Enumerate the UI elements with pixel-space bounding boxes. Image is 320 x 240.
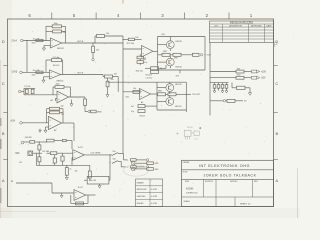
svg-text:FSCM NO: FSCM NO — [205, 181, 214, 183]
svg-text:10k: 10k — [135, 37, 138, 39]
svg-text:C: C — [275, 81, 278, 86]
svg-text:DATE: DATE — [266, 24, 272, 27]
svg-text:R44 1k: R44 1k — [140, 115, 146, 117]
svg-text:2k2 680: 2k2 680 — [42, 151, 49, 153]
svg-text:10k: 10k — [106, 33, 109, 35]
svg-text:TL071: TL071 — [78, 187, 83, 189]
svg-text:APPROVED: APPROVED — [251, 24, 262, 27]
svg-text:6k8 48V: 6k8 48V — [25, 137, 33, 139]
svg-text:R42: R42 — [126, 97, 129, 99]
svg-text:A4: A4 — [144, 58, 146, 61]
svg-text:+15V: +15V — [161, 34, 166, 36]
svg-text:1 2 3: 1 2 3 — [194, 139, 198, 141]
svg-text:OUT LEVEL: OUT LEVEL — [91, 153, 101, 155]
svg-text:ISSUED: ISSUED — [137, 203, 144, 205]
svg-text:C4 100p: C4 100p — [53, 57, 60, 59]
svg-text:MIC: MIC — [16, 153, 20, 155]
svg-text:TITLE: TITLE — [183, 171, 189, 173]
svg-text:S1a: S1a — [113, 151, 116, 153]
svg-text:CHECKED: CHECKED — [137, 196, 147, 198]
svg-text:R22 10k: R22 10k — [127, 43, 134, 45]
svg-text:10k: 10k — [133, 88, 136, 90]
svg-text:4-12-85: 4-12-85 — [151, 203, 157, 205]
svg-text:1k: 1k — [160, 68, 162, 70]
svg-text:BD139: BD139 — [176, 41, 183, 43]
svg-text:BD139: BD139 — [187, 127, 192, 129]
svg-text:22k: 22k — [61, 114, 64, 116]
svg-text:A: A — [275, 178, 278, 183]
svg-text:OUT B: OUT B — [77, 72, 84, 74]
svg-text:INT ELEKTRONIK OHG: INT ELEKTRONIK OHG — [199, 164, 250, 168]
svg-text:JOKER 19-D: JOKER 19-D — [186, 192, 198, 194]
svg-text:1k: 1k — [70, 168, 72, 170]
svg-text:47p: 47p — [131, 111, 134, 113]
svg-text:R52: R52 — [237, 75, 240, 77]
svg-text:P1 22k: P1 22k — [25, 86, 31, 88]
svg-text:C12 47p: C12 47p — [146, 78, 153, 80]
svg-text:2: 2 — [127, 167, 128, 169]
svg-text:100n: 100n — [32, 43, 36, 45]
svg-text:B: B — [275, 131, 278, 136]
svg-text:CH A: CH A — [12, 40, 18, 43]
svg-text:SCALE: SCALE — [184, 200, 191, 203]
svg-text:22u: 22u — [111, 79, 114, 81]
svg-text:OUT A: OUT A — [77, 40, 84, 43]
svg-text:A5: A5 — [141, 101, 143, 104]
svg-text:47k: 47k — [63, 32, 66, 34]
svg-text:REM: REM — [97, 111, 102, 113]
svg-text:R31 4k7: R31 4k7 — [146, 74, 153, 76]
svg-text:10k: 10k — [96, 49, 99, 51]
svg-text:0R47: 0R47 — [174, 58, 178, 60]
svg-text:4-12-85: 4-12-85 — [151, 196, 157, 198]
svg-text:4k7: 4k7 — [114, 74, 117, 76]
svg-text:DESCRIPTION: DESCRIPTION — [229, 25, 242, 27]
svg-text:1k2: 1k2 — [19, 162, 22, 164]
svg-text:OUT: OUT — [207, 55, 212, 57]
svg-text:NE5532: NE5532 — [57, 80, 64, 82]
svg-text:0R47: 0R47 — [158, 91, 162, 93]
svg-text:4k7: 4k7 — [131, 106, 134, 108]
svg-text:0R47: 0R47 — [163, 51, 167, 53]
svg-text:DRAWN: DRAWN — [137, 181, 145, 184]
svg-text:A3 DIN: A3 DIN — [186, 188, 194, 191]
svg-text:NE5532: NE5532 — [57, 48, 64, 50]
svg-text:TL071: TL071 — [78, 147, 83, 149]
svg-text:DWG NO: DWG NO — [230, 181, 238, 183]
svg-text:47p: 47p — [144, 62, 147, 64]
svg-text:BD139: BD139 — [175, 84, 182, 86]
svg-text:100p: 100p — [54, 23, 58, 25]
svg-text:100k: 100k — [56, 84, 60, 86]
svg-text:1: 1 — [127, 160, 128, 162]
svg-text:4-12-85: 4-12-85 — [151, 189, 157, 191]
svg-text:TLB OUT: TLB OUT — [192, 94, 201, 96]
svg-text:10k: 10k — [75, 171, 78, 173]
svg-text:S1b: S1b — [113, 159, 116, 161]
svg-text:10k LIN: 10k LIN — [90, 180, 97, 182]
svg-text:1k0 47k: 1k0 47k — [53, 65, 60, 67]
svg-text:BD140: BD140 — [175, 106, 182, 108]
svg-text:APPROVED: APPROVED — [137, 188, 148, 191]
svg-text:OWNER: OWNER — [183, 162, 190, 164]
svg-text:+15V: +15V — [261, 71, 267, 73]
svg-text:R51: R51 — [237, 68, 240, 70]
svg-text:BD140: BD140 — [176, 67, 183, 69]
svg-text:100n: 100n — [32, 75, 36, 77]
svg-text:JOKER SOLO TALKBACK: JOKER SOLO TALKBACK — [203, 174, 256, 178]
svg-text:CH B: CH B — [12, 72, 18, 74]
svg-text:-15V: -15V — [261, 78, 266, 80]
svg-text:A3: A3 — [54, 129, 56, 132]
svg-text:SHEET 1/1: SHEET 1/1 — [240, 203, 251, 205]
svg-text:47p: 47p — [61, 106, 64, 108]
svg-text:R24 47p: R24 47p — [136, 71, 143, 73]
